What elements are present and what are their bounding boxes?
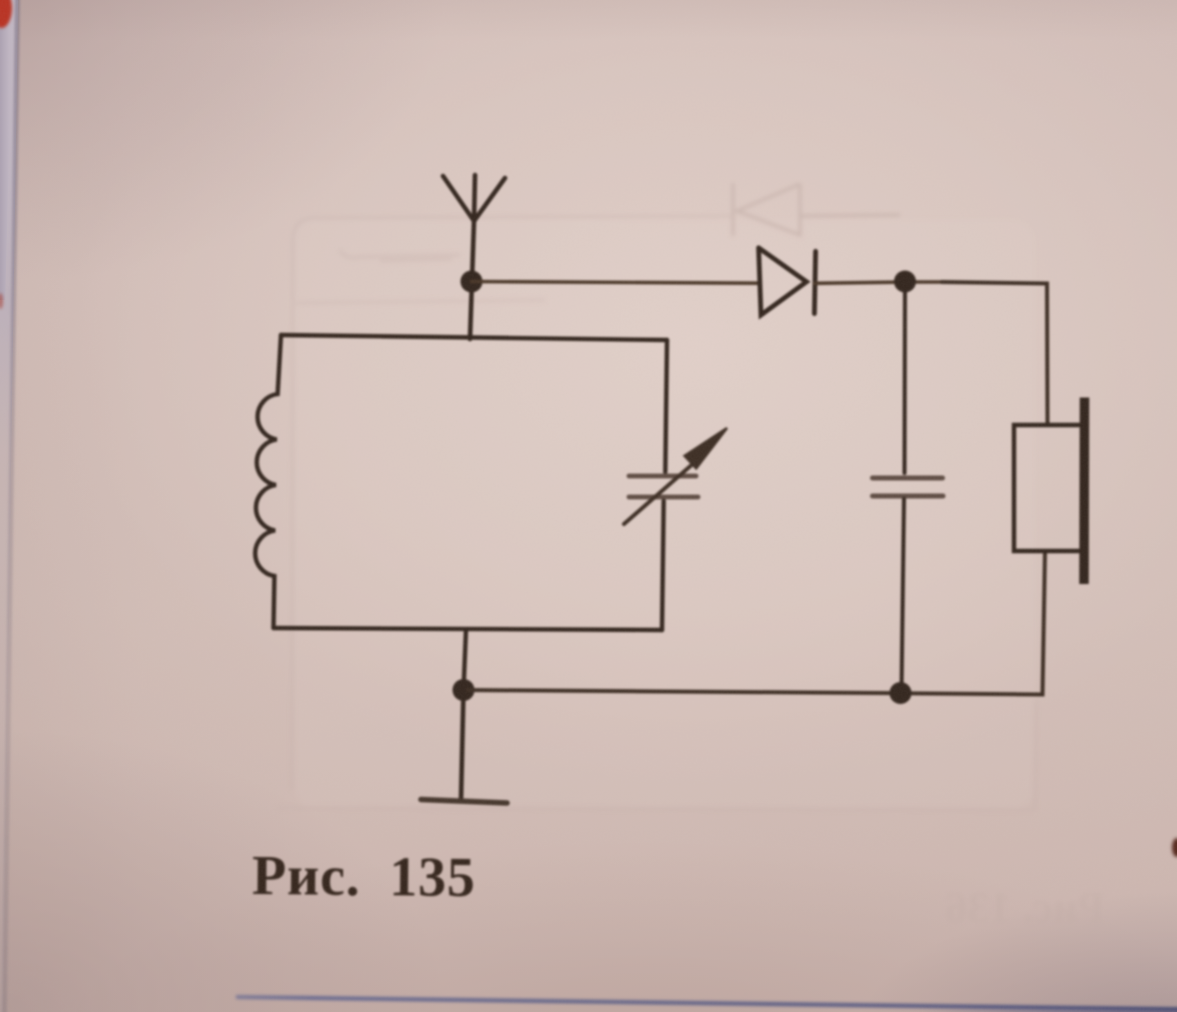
node B junction dot [894, 271, 916, 293]
ghost frame bottom horizontal [277, 808, 1035, 810]
red corner mark [0, 0, 12, 28]
wire tank box right edge upper [665, 340, 667, 472]
node A junction dot antenna [461, 271, 483, 293]
ghost text squiggle row 2 [295, 300, 545, 303]
wire tank box top edge [281, 335, 667, 340]
variable capacitor C1 plates [629, 476, 698, 497]
inductor L1 with tank box left side [255, 335, 281, 628]
wire tank box right edge lower [662, 501, 664, 630]
blue rule at bottom [236, 995, 1177, 1011]
wire tank box bottom edge [274, 628, 663, 630]
ghost frame right vertical [1035, 700, 1036, 810]
dark mark right edge [1172, 838, 1177, 857]
node D junction dot [890, 682, 912, 704]
diode VD1 [759, 248, 816, 315]
ghost diode wire [801, 215, 900, 216]
earphone BF1 body [1014, 425, 1079, 551]
antenna W1 [443, 175, 505, 339]
wire: diode to node B [815, 282, 945, 283]
wire: node B down to capacitor C2 [903, 282, 908, 474]
ghost diode triangle [737, 184, 800, 235]
ground stem [461, 690, 464, 801]
ground bar [421, 800, 507, 804]
ghost diode bar [732, 183, 735, 236]
ghost text squiggle row 1 [340, 250, 460, 258]
node C junction dot [453, 679, 475, 701]
ghost wire segment [380, 259, 452, 261]
red speck left edge [0, 293, 3, 309]
variable capacitor C1 arrow [624, 428, 727, 524]
book spine page-edge strip (left) [0, 0, 22, 1012]
wire: node B to top-right corner and down to earphone [942, 282, 1048, 425]
ghost frame top horizontal with rounded corner [293, 216, 731, 240]
caption Рис. 135 [252, 844, 476, 910]
wire top: antenna to diode [472, 282, 759, 284]
wire: tank bottom to node C [464, 630, 467, 691]
wire bottom: node C to node D to right corner [464, 551, 1046, 695]
earphone BF1 diaphragm bar [1079, 398, 1089, 585]
ghost frame left vertical [292, 240, 293, 790]
ghost page lighter area [294, 219, 1035, 809]
wire: capacitor C2 to node D [902, 499, 905, 693]
capacitor C2 plates [873, 478, 944, 496]
